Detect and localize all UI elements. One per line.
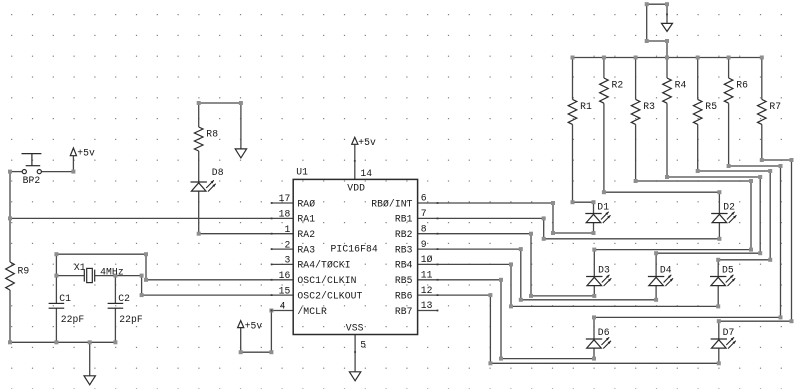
svg-text:6: 6	[421, 193, 427, 204]
svg-text:RB3: RB3	[395, 244, 413, 255]
svg-text:D8: D8	[212, 167, 224, 178]
svg-text:R1: R1	[580, 101, 592, 112]
svg-text:D1: D1	[597, 202, 609, 213]
svg-text:5: 5	[360, 340, 366, 351]
svg-text:RBØ/INT: RBØ/INT	[371, 198, 412, 209]
svg-text:1Ø: 1Ø	[421, 254, 433, 265]
svg-text:RAØ: RAØ	[297, 198, 315, 209]
svg-text:13: 13	[421, 300, 433, 311]
svg-text:U1: U1	[296, 166, 308, 177]
svg-text:RA3: RA3	[297, 244, 315, 255]
svg-text:VSS: VSS	[346, 323, 364, 334]
svg-text:OSC2/CLKOUT: OSC2/CLKOUT	[297, 290, 362, 301]
svg-text:R7: R7	[769, 101, 781, 112]
svg-text:+5v: +5v	[245, 320, 263, 331]
svg-text:R4: R4	[675, 80, 687, 91]
svg-text:17: 17	[279, 193, 291, 204]
svg-text:OSC1/CLKIN: OSC1/CLKIN	[297, 275, 356, 286]
svg-text:R5: R5	[705, 101, 717, 112]
svg-text:X1: X1	[74, 262, 86, 273]
svg-text:22pF: 22pF	[119, 314, 143, 325]
svg-text:3: 3	[284, 255, 290, 266]
svg-text:RB5: RB5	[395, 275, 413, 286]
svg-text:D4: D4	[660, 265, 672, 276]
svg-text:RB2: RB2	[395, 229, 413, 240]
svg-text:D5: D5	[722, 265, 734, 276]
svg-text:RB1: RB1	[395, 214, 413, 225]
svg-text:RB7: RB7	[395, 306, 413, 317]
svg-text:2: 2	[284, 239, 290, 250]
svg-text:RA1: RA1	[297, 214, 315, 225]
svg-text:VDD: VDD	[347, 182, 365, 193]
svg-text:D2: D2	[723, 202, 735, 213]
svg-text:16: 16	[279, 270, 291, 281]
svg-text:4MHz: 4MHz	[100, 266, 124, 277]
svg-text:12: 12	[421, 285, 433, 296]
svg-text:/MCLR: /MCLR	[297, 306, 327, 317]
svg-text:R6: R6	[736, 80, 748, 91]
svg-text:22pF: 22pF	[61, 314, 85, 325]
svg-text:RB6: RB6	[395, 290, 413, 301]
svg-text:D3: D3	[598, 265, 610, 276]
svg-text:14: 14	[360, 168, 372, 179]
svg-text:1: 1	[284, 224, 290, 235]
svg-text:C2: C2	[118, 293, 130, 304]
svg-text:+5v: +5v	[77, 148, 95, 159]
svg-text:+5v: +5v	[358, 137, 376, 148]
svg-text:R3: R3	[643, 101, 655, 112]
svg-text:R2: R2	[612, 80, 624, 91]
svg-text:D7: D7	[723, 327, 735, 338]
svg-text:D6: D6	[598, 327, 610, 338]
svg-text:R8: R8	[206, 129, 218, 140]
svg-text:11: 11	[421, 270, 433, 281]
svg-text:RA2: RA2	[297, 229, 315, 240]
svg-text:4: 4	[280, 301, 286, 312]
svg-text:C1: C1	[59, 293, 71, 304]
svg-text:7: 7	[421, 208, 427, 219]
svg-text:BP2: BP2	[23, 175, 41, 186]
svg-text:R9: R9	[18, 266, 30, 277]
svg-text:18: 18	[279, 209, 291, 220]
svg-text:PIC16F84: PIC16F84	[331, 244, 378, 255]
svg-text:RA4/TØCKI: RA4/TØCKI	[297, 260, 350, 271]
svg-text:8: 8	[421, 223, 427, 234]
svg-text:RB4: RB4	[395, 260, 413, 271]
svg-text:9: 9	[421, 239, 427, 250]
svg-text:15: 15	[279, 285, 291, 296]
